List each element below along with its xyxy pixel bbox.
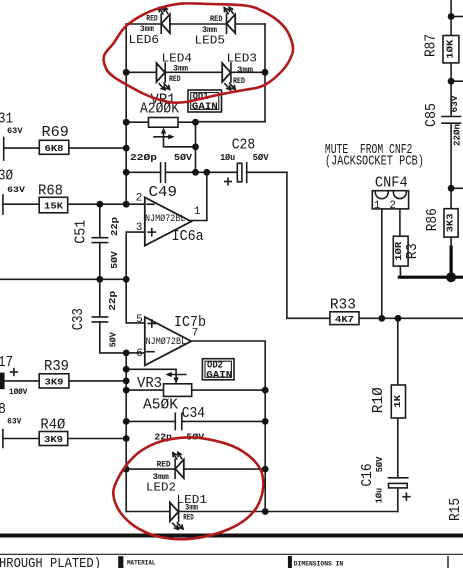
svg-text:5ØV: 5ØV (253, 152, 269, 163)
wire C51 bottom (99, 243, 101, 279)
svg-text:IC7b: IC7b (174, 315, 206, 331)
resistor R69 body (39, 140, 69, 154)
svg-text:LED3: LED3 (227, 52, 258, 66)
svg-text:3: 3 (136, 222, 143, 234)
svg-text:RED: RED (233, 77, 245, 86)
svg-text:R4Ø: R4Ø (40, 417, 65, 433)
wire node stub right at R87 bottom (451, 80, 463, 82)
wire C85 bottom (450, 125, 452, 189)
title block border thick line (0, 534, 463, 538)
node IC6a output junction (203, 169, 210, 176)
svg-text:2: 2 (389, 200, 396, 212)
svg-text:63V: 63V (7, 186, 25, 195)
title block top rule (0, 553, 463, 555)
wire R40 row (3, 438, 39, 440)
capacitor C18 plate stub (2, 430, 4, 448)
wire IC6a pin3 (126, 232, 145, 279)
svg-text:3mm: 3mm (153, 473, 170, 482)
LED LED2 (points left) (173, 452, 184, 478)
resistor R87 body (443, 36, 459, 63)
node R87 top junction (448, 13, 455, 20)
capacitor C33 plates (92, 317, 107, 322)
wire C33 bottom (100, 323, 126, 353)
svg-text:17: 17 (0, 355, 13, 371)
svg-text:5ØV: 5ØV (174, 152, 192, 163)
wire C85 top to R87 (450, 81, 452, 115)
label box OD1 GAIN (188, 90, 222, 112)
node VR1 left junction (123, 119, 130, 126)
node IC7b pin6 junction (123, 350, 130, 357)
node CNF4 pin1 to R33 junction (378, 315, 385, 322)
potentiometer VR3 body (164, 384, 192, 397)
wire R87 bottom (450, 63, 452, 81)
wire R40 to bus (68, 438, 127, 440)
resistor R10 body (391, 385, 405, 418)
svg-text:6K8: 6K8 (45, 143, 64, 154)
wire CNF4 pin1 drop (381, 199, 383, 319)
resistor R40 body (39, 432, 67, 446)
node ground row bus junction (123, 276, 130, 283)
capacitor C51 plates (92, 238, 107, 243)
LED LED3 (points right) (222, 63, 235, 90)
wire C49 to C28 (166, 171, 237, 173)
svg-text:RED: RED (157, 460, 171, 469)
svg-text:3mm: 3mm (202, 26, 217, 35)
svg-text:NJMØ72BL: NJMØ72BL (145, 213, 186, 225)
node LED2 right junction (262, 466, 269, 473)
node VR1 right junction (192, 119, 199, 126)
wire R69 to bus (69, 147, 126, 149)
wire node stub right at R86 top (451, 187, 463, 189)
red ellipse around LED3-LED6 (104, 3, 293, 102)
svg-text:LED6: LED6 (129, 33, 160, 47)
wire IC7b pin6 (126, 352, 145, 354)
label box OD2 GAIN (202, 359, 234, 380)
wire C28 drop vertical (286, 172, 288, 318)
node C51 top junction (96, 201, 103, 208)
node C34 right junction (262, 418, 269, 425)
svg-text:IC6a: IC6a (172, 229, 204, 245)
capacitor C17 plus sign (11, 369, 18, 376)
wire R3 bottom (399, 266, 401, 276)
svg-text:LED4: LED4 (162, 52, 193, 66)
wire C51 top (99, 204, 101, 237)
wire R87 top (450, 0, 452, 36)
resistor R86 body (444, 209, 458, 237)
red ellipse around LED1-LED2 (113, 437, 263, 539)
svg-text:5ØV: 5ØV (108, 332, 119, 347)
title block divider bar 2 (288, 556, 292, 568)
wire VR1 wiper (164, 130, 196, 147)
capacitor C49 plates (161, 163, 166, 182)
svg-text:R69: R69 (42, 125, 69, 141)
svg-text:22Øn: 22Øn (452, 124, 463, 146)
svg-text:3K3: 3K3 (445, 213, 456, 232)
wire VR1 right terminal (178, 121, 196, 123)
node IC6a pin2 junction (123, 201, 130, 208)
capacitor C31 plate stub (3, 138, 5, 161)
svg-text:R3: R3 (405, 243, 421, 259)
capacitor C85 plates (442, 117, 461, 124)
op-amp U IC6a triangle (145, 197, 191, 245)
wire C49 row (126, 171, 160, 173)
svg-text:A5ØK: A5ØK (143, 398, 178, 414)
wire C28 right to drop (247, 171, 287, 173)
svg-text:63V: 63V (449, 95, 460, 112)
svg-text:R33: R33 (330, 298, 356, 314)
wire LED right vertical (264, 24, 266, 122)
wire R86 bottom thin (450, 237, 452, 248)
wire C16 top to R10 (397, 418, 399, 477)
resistor R68 body (39, 197, 67, 213)
svg-text:5ØV: 5ØV (374, 456, 385, 472)
svg-text:R68: R68 (38, 184, 63, 200)
svg-text:VR3: VR3 (137, 376, 162, 392)
wire VR1 output riser (195, 122, 197, 173)
svg-text:1K: 1K (392, 395, 403, 408)
wire left bus node C (IC7b pin6 net) (125, 353, 127, 512)
svg-text:R1Ø: R1Ø (371, 387, 387, 413)
node VR1 wiper junction (192, 143, 199, 150)
node R10 to R33 junction (395, 315, 402, 322)
node VR3 wiper junction (123, 366, 130, 373)
svg-text:LED2: LED2 (146, 481, 176, 495)
node C49 left junction (123, 169, 130, 176)
node VR3 right junction (262, 387, 269, 394)
svg-text:1ØØV: 1ØØV (9, 388, 27, 397)
svg-text:5ØV: 5ØV (109, 251, 120, 269)
svg-text:3K9: 3K9 (44, 434, 63, 445)
svg-text:22p: 22p (107, 290, 118, 310)
wire ground to IC7b pin5 (126, 279, 145, 323)
svg-text:1: 1 (374, 200, 381, 212)
node LED4 left junction (123, 69, 130, 76)
capacitor C17 plate (electrolytic, cut at edge) (0, 373, 5, 390)
node R40 junction (123, 435, 130, 442)
svg-text:CNF4: CNF4 (375, 175, 408, 191)
wire C34 row right (183, 420, 266, 422)
svg-text:C34: C34 (182, 406, 205, 422)
wire LED second row (126, 71, 265, 73)
svg-text:15K: 15K (44, 200, 63, 211)
svg-text:8: 8 (0, 402, 6, 418)
LED LED4 (points right) (157, 63, 170, 90)
node VR3 left junction (123, 387, 130, 394)
connector CNF4 body (372, 191, 408, 209)
wire R33 to right edge (359, 317, 463, 319)
node ground row C51 junction (96, 276, 103, 283)
potentiometer VR3 adjust arrow (166, 372, 187, 377)
wire drop to R33 (287, 317, 330, 319)
wire CNF4 pin2 drop (399, 199, 401, 237)
svg-text:3mm: 3mm (185, 503, 198, 512)
wire VR3 left terminal (126, 389, 163, 391)
wire R39 row (5, 380, 39, 382)
node R87 bottom junction (448, 78, 455, 85)
svg-text:R39: R39 (44, 359, 69, 375)
svg-text:1ØK: 1ØK (445, 39, 456, 58)
wire VR1 left terminal (126, 121, 148, 123)
svg-text:GAIN: GAIN (192, 102, 218, 113)
wire R86 bottom thick (450, 247, 453, 277)
potentiometer VR1 adjust arrow (154, 134, 175, 139)
wire R69 row (4, 147, 40, 149)
title block divider line 3 (447, 556, 449, 568)
LED LED6 (points left) (159, 7, 170, 33)
wire R86 top (450, 188, 452, 208)
resistor R33 body (330, 312, 359, 325)
wire LED1 row (126, 511, 398, 513)
node LED2 left junction (123, 466, 130, 473)
svg-text:RED: RED (169, 75, 181, 84)
svg-text:LED5: LED5 (195, 33, 226, 47)
svg-text:1Øu: 1Øu (220, 152, 235, 163)
wire R10 top (397, 318, 399, 385)
svg-text:DIMENSIONS IN: DIMENSIONS IN (294, 561, 343, 568)
svg-text:HROUGH PLATED): HROUGH PLATED) (0, 557, 101, 568)
resistor R39 body (39, 374, 69, 388)
capacitor C16 body (electrolytic) (389, 478, 410, 500)
wire LED bottom to VR1 right (196, 121, 266, 123)
svg-text:1Øu: 1Øu (373, 488, 384, 504)
svg-text:1ØR: 1ØR (393, 241, 404, 260)
svg-text:3K9: 3K9 (45, 376, 64, 387)
node LED3 right junction (262, 69, 269, 76)
svg-text:R15: R15 (448, 498, 463, 521)
svg-text:22p: 22p (109, 217, 120, 236)
node R86 top junction (448, 185, 455, 192)
potentiometer VR3 wiper arrowhead (173, 378, 178, 384)
wire LED2 row (126, 468, 265, 470)
wire VR3 right terminal (192, 389, 266, 391)
capacitor C28 body (electrolytic) (225, 163, 247, 185)
potentiometer VR1 wiper arrowhead (161, 128, 166, 134)
svg-text:3mm: 3mm (140, 25, 154, 34)
svg-text:MATERIAL: MATERIAL (127, 560, 156, 567)
wire VR3 wiper (126, 369, 176, 382)
svg-text:GAIN: GAIN (206, 370, 232, 381)
svg-text:C85: C85 (424, 103, 440, 127)
wire IC6a output riser (206, 172, 208, 220)
capacitor C30 plate stub (2, 195, 4, 214)
svg-text:3Ø: 3Ø (0, 169, 13, 185)
svg-text:R86: R86 (425, 208, 441, 231)
node LED1 right junction (262, 508, 269, 515)
LED LED5 (points left) (224, 7, 235, 33)
wire IC6a output (191, 220, 207, 222)
svg-text:NJMØ72BL: NJMØ72BL (146, 336, 187, 348)
wire C16 bottom riser (397, 488, 399, 512)
wire node stub right at R87 top (451, 16, 463, 18)
svg-text:C49: C49 (149, 185, 178, 201)
wire R68 row (3, 203, 39, 205)
svg-text:C33: C33 (71, 308, 87, 330)
svg-text:63V: 63V (7, 418, 21, 427)
svg-text:3mm: 3mm (173, 64, 188, 73)
svg-text:RED: RED (183, 514, 194, 523)
svg-text:R87: R87 (424, 34, 440, 57)
svg-text:1: 1 (194, 206, 201, 218)
potentiometer VR1 body (149, 118, 179, 128)
svg-text:3mm: 3mm (237, 66, 253, 75)
svg-text:RED: RED (146, 15, 158, 24)
svg-text:4K7: 4K7 (335, 314, 354, 325)
wire R39 to bus (69, 380, 126, 382)
svg-text:(JACKSOCKET PCB): (JACKSOCKET PCB) (325, 155, 424, 170)
node R39 junction (123, 378, 130, 385)
resistor R3 body (393, 236, 408, 266)
node C49 right junction (192, 169, 199, 176)
svg-text:31: 31 (0, 112, 13, 128)
svg-text:2: 2 (136, 193, 143, 205)
LED LED1 (points right) (170, 502, 183, 529)
wire LED top row (126, 23, 265, 25)
wire IC7b output (191, 341, 265, 512)
wire C34 row left (126, 420, 174, 422)
wire left bus node A (IC6a pin2 net) (125, 24, 127, 204)
node C34 left junction (123, 418, 130, 425)
svg-text:6: 6 (136, 348, 143, 360)
node thick bus junction (446, 272, 456, 282)
svg-text:5: 5 (136, 314, 143, 326)
wire R68 to IC6a pin2 (68, 203, 145, 205)
title block divider bar 1 (118, 556, 123, 568)
node R69 junction (123, 145, 130, 152)
wire thick output bus (399, 276, 463, 279)
svg-text:22Øp: 22Øp (130, 152, 157, 163)
svg-text:RED: RED (210, 15, 223, 24)
capacitor C34 plates (175, 413, 182, 429)
wire C33 top (99, 279, 101, 316)
svg-text:C51: C51 (73, 220, 89, 244)
svg-text:63V: 63V (7, 127, 23, 136)
op-amp U IC7b triangle (145, 317, 191, 365)
wire ground row from left edge (0, 278, 126, 280)
